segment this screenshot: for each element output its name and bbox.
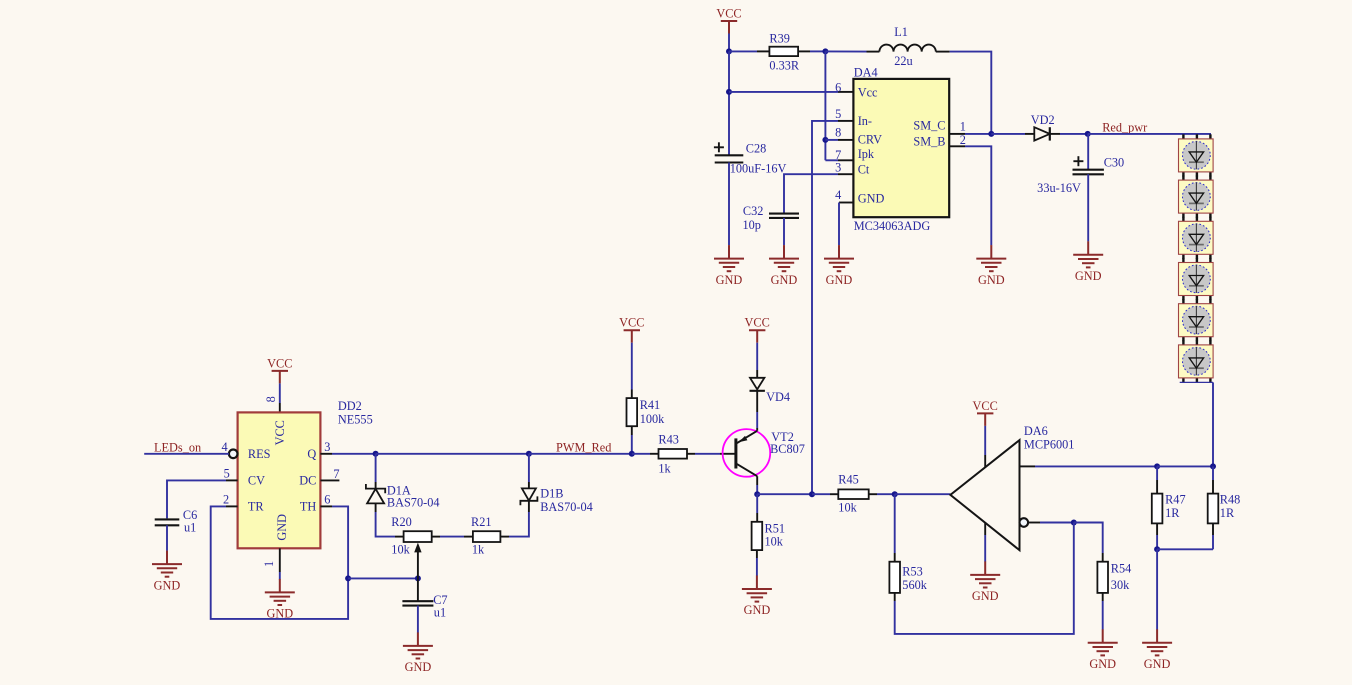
svg-text:BAS70-04: BAS70-04 [540, 500, 593, 514]
svg-text:LEDs_on: LEDs_on [154, 441, 201, 455]
node R47 top junction [1154, 463, 1160, 469]
svg-text:6: 6 [835, 81, 841, 95]
DA4 pin 7 Ipk wire [838, 159, 853, 161]
DA6 input pin (top) wire to sense node [1020, 465, 1036, 467]
node Red_pwr junction [1085, 131, 1091, 137]
DA4 pin 2 SM_B wire to GND [949, 145, 965, 147]
ground GND (DA6) [970, 561, 1000, 587]
DA4 pin 5 In- wire down (feedback vertical) [838, 120, 853, 122]
resistor R48 1R [1212, 466, 1214, 480]
svg-text:GND: GND [266, 607, 293, 621]
svg-text:1k: 1k [658, 461, 671, 475]
svg-text:BAS70-04: BAS70-04 [387, 496, 440, 510]
DD2 pin 7 DC stub [320, 479, 339, 481]
svg-text:Red_pwr: Red_pwr [1102, 121, 1147, 135]
node R47/R48 bottom junction [1154, 546, 1160, 552]
resistor R54 30k [1097, 562, 1108, 593]
wire R39 right to junction B [798, 50, 810, 52]
ground GND (DA4 pin4) [824, 245, 854, 271]
svg-text:SM_C: SM_C [913, 119, 945, 133]
svg-text:GND: GND [275, 514, 289, 541]
svg-text:5: 5 [835, 107, 841, 121]
resistor R21 1k [473, 531, 501, 542]
DA4 pin 4 GND wire [839, 202, 853, 204]
wire junction to R20 wiper / C7 [348, 577, 418, 579]
diode D1A BAS70-04 [375, 454, 377, 482]
svg-text:GND: GND [972, 589, 999, 603]
wire Q net to D1B node [376, 453, 529, 455]
wire LED chain bottom bus [1180, 381, 1213, 383]
wire to PWM_Red node [529, 453, 632, 455]
svg-text:R47: R47 [1165, 492, 1186, 506]
svg-text:VCC: VCC [619, 316, 644, 330]
svg-text:GND: GND [1075, 269, 1102, 283]
svg-text:GND: GND [1144, 657, 1171, 671]
svg-text:C32: C32 [743, 204, 764, 218]
ground GND (R54) [1088, 629, 1118, 655]
wire C28 to GND [728, 163, 730, 246]
wire C30 to GND [1087, 174, 1089, 241]
power symbol VCC (top, net to R39/DA4) [721, 21, 737, 34]
wire R48 bottom to junction [1212, 523, 1214, 535]
svg-text:GND: GND [1089, 657, 1116, 671]
capacitor C28 100uF-16V (polarized) [714, 142, 724, 152]
node collector junction [754, 491, 760, 497]
DD2 pin 2 TR wire loop [226, 505, 238, 507]
capacitor C7 u1 [417, 578, 419, 600]
svg-text:100k: 100k [640, 412, 665, 426]
svg-text:R20: R20 [391, 515, 412, 529]
wire to R43 [632, 453, 650, 455]
svg-text:In-: In- [858, 114, 872, 128]
ground GND (R47/R48) [1142, 629, 1172, 655]
power symbol VCC (DD2 pin 8) [272, 371, 288, 384]
LED D1 (SMD LED cell) [1179, 134, 1214, 176]
svg-text:Q: Q [307, 447, 316, 461]
svg-text:VD2: VD2 [1031, 113, 1055, 127]
power symbol VCC (R41) [624, 330, 640, 343]
DA4 pin 3 Ct wire to C32 [838, 173, 853, 175]
DD2 pin 3 Q wire [320, 453, 332, 455]
svg-text:1R: 1R [1165, 506, 1180, 520]
svg-text:1R: 1R [1220, 506, 1235, 520]
svg-text:10p: 10p [742, 218, 760, 232]
capacitor C30 33u-16V (polarized) [1087, 134, 1089, 170]
node A junction (VCC/R39/Vcc pin column) [726, 48, 732, 54]
wire B to L1 [825, 50, 866, 52]
wire B down to CRV/Ipk [824, 51, 826, 160]
wire to R48 top [1157, 465, 1213, 467]
svg-text:VCC: VCC [267, 356, 292, 370]
svg-text:6: 6 [324, 493, 330, 507]
node R53/output junction [892, 491, 898, 497]
resistor R39 [769, 47, 798, 56]
svg-text:DC: DC [299, 473, 316, 487]
svg-text:NE555: NE555 [338, 412, 373, 426]
svg-text:L1: L1 [894, 25, 908, 39]
node D1B junction [526, 451, 532, 457]
svg-text:7: 7 [333, 467, 339, 481]
wire C6 to GND [166, 525, 168, 551]
IC DD2 NE555 body [238, 412, 321, 548]
resistor R51 10k [756, 494, 758, 513]
svg-text:1: 1 [960, 120, 966, 134]
svg-text:100uF-16V: 100uF-16V [730, 162, 787, 176]
wire L1 right down to SM_C node [950, 52, 992, 134]
wire VD2 to Red_pwr node [1050, 133, 1060, 135]
DA6 inverting pin bubble [1020, 518, 1029, 527]
ground GND (DD2 pin1) [265, 579, 295, 605]
svg-text:GND: GND [744, 603, 771, 617]
wire VD4 to VT2 emitter [756, 391, 758, 412]
node PWM_Red junction [629, 451, 635, 457]
svg-text:R39: R39 [769, 31, 790, 45]
svg-text:CRV: CRV [858, 133, 882, 147]
svg-text:TH: TH [300, 499, 317, 513]
svg-text:8: 8 [835, 126, 841, 140]
resistor R45 10k [838, 489, 868, 499]
ground GND (C7) [403, 632, 433, 658]
svg-text:DD2: DD2 [338, 399, 362, 413]
wire R54 to GND [1102, 593, 1104, 601]
node feedback/R54 junction [1071, 520, 1077, 526]
svg-text:D1B: D1B [540, 486, 563, 500]
wire R45 to op-amp output node [869, 493, 877, 495]
wire R53 top to output node [894, 553, 896, 562]
svg-text:VD4: VD4 [766, 390, 790, 404]
wire to R45 [812, 493, 830, 495]
wire LED chain to R48/op-amp node [1212, 382, 1214, 466]
DA4 pin 8 CRV wire [838, 139, 853, 141]
svg-text:R43: R43 [658, 432, 679, 446]
svg-text:GND: GND [405, 660, 432, 674]
svg-text:u1: u1 [184, 520, 196, 534]
power symbol VCC (DA6) [977, 413, 993, 426]
svg-text:8: 8 [264, 396, 278, 402]
svg-text:VCC: VCC [716, 6, 741, 20]
LED D5 (SMD LED cell) [1179, 299, 1214, 341]
svg-text:PWM_Red: PWM_Red [556, 440, 611, 454]
resistor R43 1k [659, 449, 688, 459]
svg-text:GND: GND [826, 273, 853, 287]
node Vcc-pin junction on VCC column [726, 89, 732, 95]
capacitor C32 10p [769, 214, 799, 218]
svg-text:22u: 22u [894, 54, 912, 68]
svg-text:GND: GND [771, 273, 798, 287]
svg-text:1: 1 [262, 561, 276, 567]
node C junction (SM_C/L1/VD2) [988, 131, 994, 137]
wire junction to R54 [1074, 523, 1103, 554]
resistor R20 10k (trimmer) [404, 531, 432, 542]
wire C7 to GND [417, 606, 419, 633]
svg-text:DA6: DA6 [1024, 424, 1048, 438]
wire VCC to R41 [631, 343, 633, 390]
wire C32 to GND [783, 218, 785, 245]
svg-text:4: 4 [835, 188, 841, 202]
svg-text:R41: R41 [640, 398, 661, 412]
svg-text:MC34063ADG: MC34063ADG [854, 219, 931, 233]
DA4 pin 1 SM_C wire [949, 133, 965, 135]
node R48 top junction [1210, 463, 1216, 469]
wire bubble to R54/feedback [1028, 522, 1040, 524]
svg-text:30k: 30k [1111, 578, 1130, 592]
svg-text:GND: GND [154, 578, 181, 592]
wire VCC to DA6 top [984, 426, 986, 455]
svg-text:Ct: Ct [858, 162, 870, 176]
wire Red_pwr to LED chain [1088, 133, 1211, 135]
svg-text:GND: GND [858, 192, 885, 206]
wire feedback loop to R53 [895, 523, 1074, 634]
DD2 pin 5 CV wire to C6 [226, 479, 238, 481]
svg-text:R48: R48 [1220, 492, 1241, 506]
svg-text:3: 3 [835, 161, 841, 175]
wire VCC to VD4 [756, 343, 758, 370]
DD2 pin 1 wire to GND [279, 548, 281, 572]
wire VCC to DD2 pin 8 [279, 383, 281, 403]
wire D1A to R20 [375, 503, 377, 512]
svg-text:GND: GND [716, 273, 743, 287]
resistor R47 1R [1156, 466, 1158, 480]
svg-text:C30: C30 [1104, 155, 1125, 169]
svg-text:RES: RES [248, 447, 271, 461]
ground GND (SM_B) [976, 245, 1006, 271]
svg-text:CV: CV [248, 473, 265, 487]
svg-text:3: 3 [324, 440, 330, 454]
wire DA6 bottom to GND [984, 522, 986, 535]
ground GND (C30) [1073, 241, 1103, 267]
svg-text:DA4: DA4 [854, 66, 878, 80]
ground GND (C6) [152, 551, 182, 577]
node feedback junction [809, 491, 815, 497]
IC DA4 MC34063ADG body [853, 79, 949, 217]
svg-text:R54: R54 [1111, 561, 1132, 575]
svg-text:VCC: VCC [973, 399, 998, 413]
svg-text:560k: 560k [902, 578, 927, 592]
svg-text:VCC: VCC [745, 316, 770, 330]
svg-text:2: 2 [223, 493, 229, 507]
svg-text:VCC: VCC [273, 420, 287, 445]
svg-text:10k: 10k [391, 543, 410, 557]
ground GND (C28) [714, 245, 744, 271]
power symbol VCC (VD4) [749, 330, 765, 343]
wire R41 to PWM_Red node [631, 426, 633, 435]
resistor R53 560k [889, 562, 900, 593]
svg-text:BC807: BC807 [770, 442, 805, 456]
svg-text:u1: u1 [434, 605, 446, 619]
svg-text:SM_B: SM_B [913, 135, 945, 149]
svg-text:0.33R: 0.33R [769, 59, 800, 73]
wire R21 to D1B [500, 536, 509, 538]
node B junction (R39/L1/CRV-Ipk) [822, 48, 828, 54]
wire junction to GND [1156, 549, 1158, 629]
diode D1B BAS70-04 [528, 454, 530, 482]
svg-text:MCP6001: MCP6001 [1024, 438, 1075, 452]
capacitor C6 u1 [155, 519, 180, 525]
wire A to R39 left [729, 50, 757, 52]
svg-text:R51: R51 [765, 521, 786, 535]
svg-text:R21: R21 [471, 515, 492, 529]
LED D3 (SMD LED cell) [1179, 217, 1214, 259]
svg-text:10k: 10k [765, 534, 784, 548]
svg-text:5: 5 [224, 466, 230, 480]
resistor R41 100k [627, 398, 638, 426]
op-amp DA6 MCP6001 triangle [950, 440, 1019, 550]
LED D4 (SMD LED cell) [1179, 258, 1214, 300]
svg-text:C28: C28 [746, 142, 767, 156]
transistor VT2 BC807 (PNP) [723, 429, 771, 477]
ground GND (R51) [742, 576, 772, 602]
wire R43 to VT2 base [687, 453, 695, 455]
diode VD4 [750, 378, 764, 390]
wire R20 to R21 [432, 536, 440, 538]
svg-text:R53: R53 [902, 564, 923, 578]
wire LEDs_on to RES bubble [144, 453, 229, 455]
R20 wiper arrow [417, 552, 419, 579]
LED D2 (SMD LED cell) [1179, 176, 1214, 218]
svg-text:1k: 1k [472, 543, 485, 557]
wire R47 bottom to junction [1156, 523, 1158, 535]
svg-text:Vcc: Vcc [858, 85, 878, 99]
svg-text:GND: GND [978, 273, 1005, 287]
LED D6 (SMD LED cell) [1179, 340, 1214, 382]
svg-text:TR: TR [248, 499, 265, 513]
inductor L1 22u [879, 45, 935, 52]
wire to DA6 output apex [895, 493, 951, 495]
wire node C to VD2 [991, 133, 1025, 135]
wire VCC to junction A [728, 34, 730, 52]
svg-text:Ipk: Ipk [858, 147, 875, 161]
wire VT2 collector down to node [756, 476, 758, 485]
node wiper/C7 junction [415, 575, 421, 581]
node CRV junction [822, 137, 828, 143]
node Q/D1A junction [373, 451, 379, 457]
svg-text:33u-16V: 33u-16V [1037, 181, 1081, 195]
wire collector node to feedback vertical [757, 493, 812, 495]
wire A down to C28 [728, 51, 730, 154]
diode VD2 [1034, 127, 1050, 140]
wire Vcc pin 6 to VCC column [729, 91, 838, 93]
node TR/TH-to-wiper junction [345, 575, 351, 581]
svg-text:R45: R45 [838, 472, 859, 486]
svg-text:10k: 10k [838, 501, 857, 515]
svg-text:2: 2 [960, 133, 966, 147]
wire R51 to GND [756, 550, 758, 558]
svg-text:4: 4 [221, 440, 227, 454]
ground GND (C32) [769, 245, 799, 271]
